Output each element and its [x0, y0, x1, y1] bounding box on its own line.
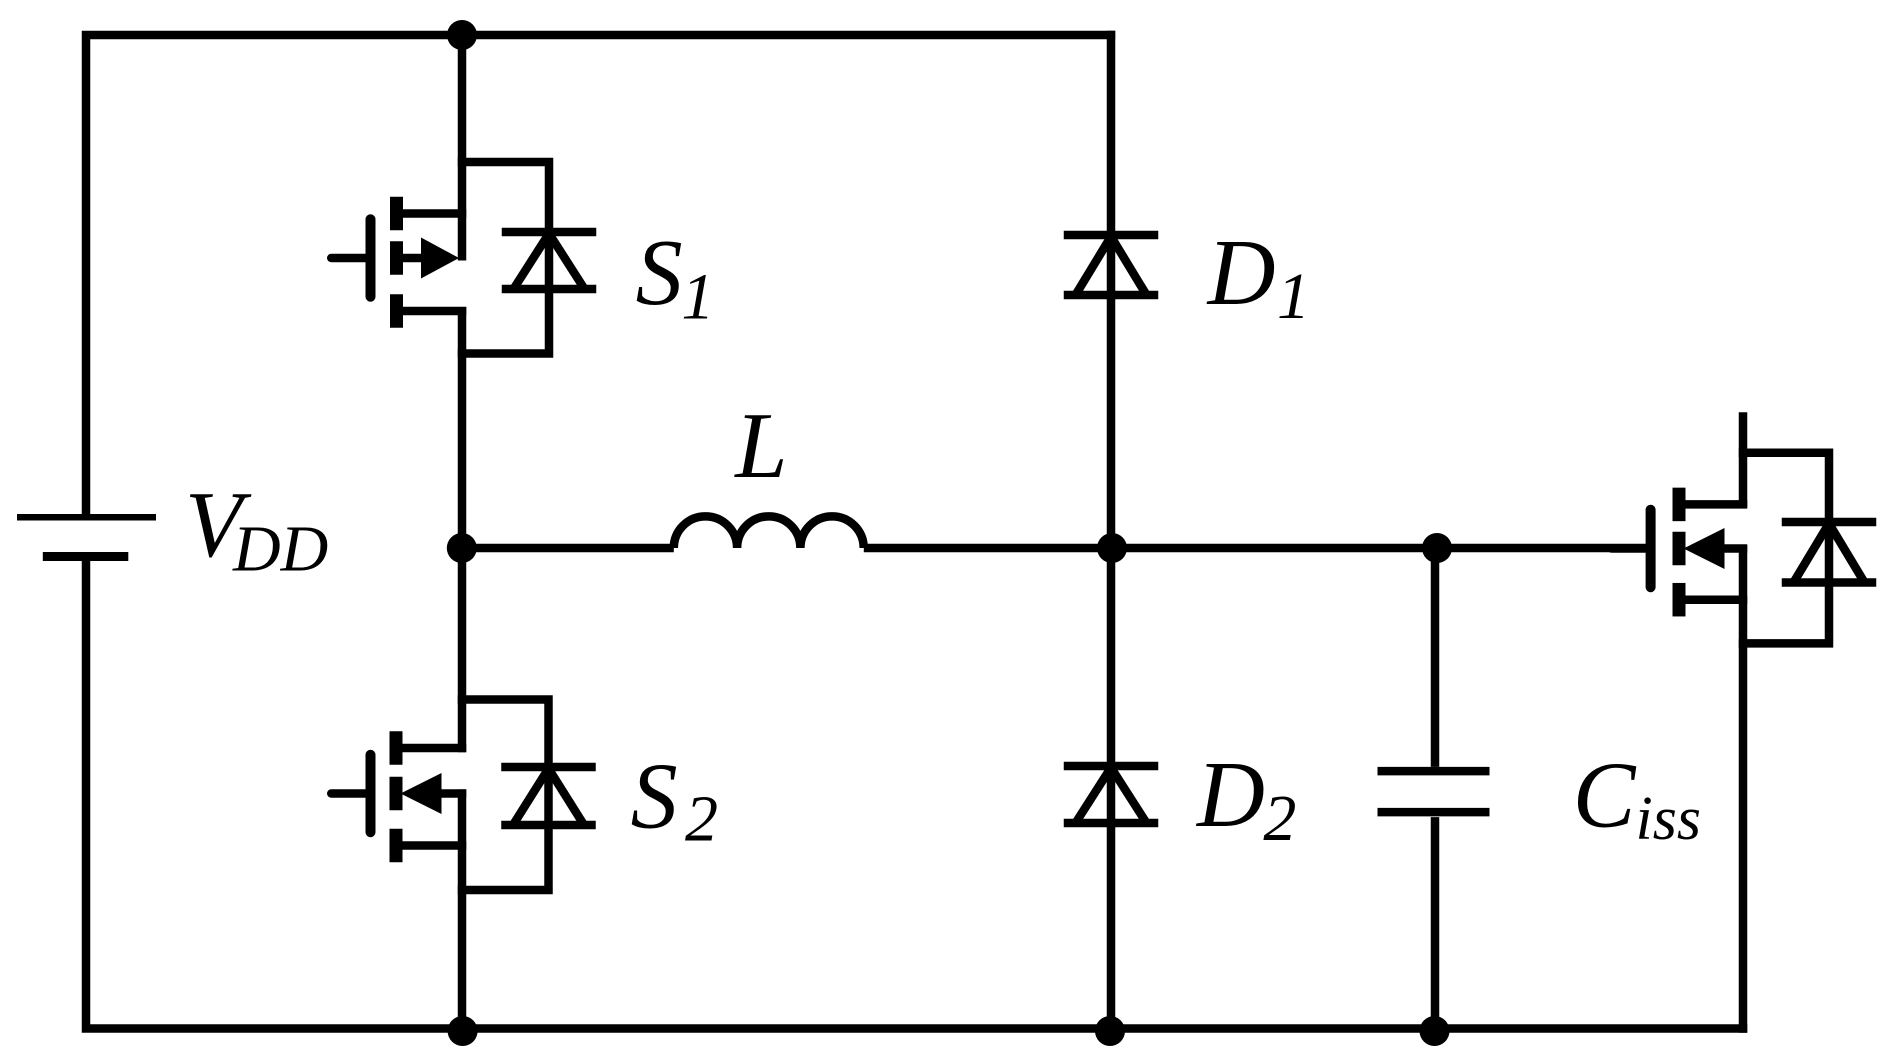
svg-text:iss: iss	[1636, 785, 1701, 853]
svg-text:L: L	[733, 394, 787, 498]
svg-text:S: S	[636, 221, 683, 325]
svg-text:2: 2	[1263, 782, 1296, 855]
svg-text:1: 1	[681, 261, 714, 334]
svg-text:DD: DD	[232, 513, 328, 586]
svg-text:D: D	[1195, 743, 1265, 847]
svg-text:S: S	[631, 745, 678, 849]
svg-text:D: D	[1206, 221, 1276, 325]
svg-text:C: C	[1573, 744, 1637, 848]
svg-text:2: 2	[685, 783, 718, 856]
svg-text:1: 1	[1277, 260, 1310, 333]
